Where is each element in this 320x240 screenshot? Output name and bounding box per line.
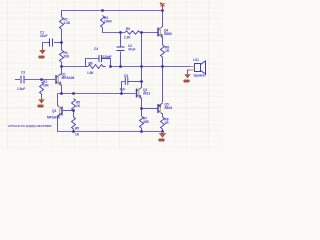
junction dots: [40, 9, 164, 133]
svg-text:20K: 20K: [64, 55, 71, 59]
node output C2: [119, 65, 122, 68]
resistor R6: [88, 65, 106, 69]
node Q3 base divider: [72, 109, 75, 112]
wire feedback loop left bar: [86, 59, 100, 67]
wire R10 bottom to output rail: [162, 57, 164, 67]
svg-text:220pF: 220pF: [102, 55, 111, 59]
resistor R1: [40, 82, 44, 94]
svg-text:47uF: 47uF: [128, 48, 135, 52]
power port GND (bottom rail): [159, 132, 166, 143]
wire R5a bottom / R5b top: [73, 110, 75, 117]
svg-text:Speaker: Speaker: [194, 74, 207, 78]
svg-text:22uF: 22uF: [40, 34, 47, 38]
capacitor C2 bootstrap: [117, 47, 125, 51]
wire R5b bottom to rail: [73, 129, 75, 132]
wire R9 right to Q4 base: [140, 32, 157, 34]
wire Q1 emitter down: [61, 85, 63, 94]
power port GND (C1): [39, 48, 46, 59]
transistor Q3: [58, 106, 63, 117]
svg-text:R9: R9: [126, 27, 130, 31]
capacitor C4 feedback: [99, 55, 111, 62]
wire Q2 collector up: [141, 82, 143, 88]
resistor R10: [161, 45, 165, 57]
power port GND (R1): [38, 98, 45, 109]
wire Q3 base to R5 node: [63, 110, 74, 112]
resistor R4: [60, 50, 64, 62]
wire R1 bottom to ground: [41, 94, 43, 98]
wire Q5 emitter to R8: [162, 114, 164, 118]
svg-text:GND: GND: [39, 56, 45, 59]
svg-text:R6: R6: [89, 62, 93, 66]
wire Q3 emitter down: [57, 117, 59, 132]
svg-text:1R: 1R: [165, 49, 170, 53]
wire Q5 collector up to rail: [162, 67, 164, 103]
node feedback loop right: [109, 65, 112, 68]
resistor R9: [125, 31, 140, 34]
svg-text:MPSA06: MPSA06: [62, 76, 75, 80]
node R5a top: [72, 92, 75, 95]
speaker LS1: [191, 61, 206, 74]
svg-text:4.3K: 4.3K: [64, 21, 71, 25]
svg-text:ATTACH TO Q4(Q5) HEATSINK: ATTACH TO Q4(Q5) HEATSINK: [8, 124, 52, 128]
capacitor C5: [125, 77, 128, 85]
wire R2 column top: [61, 11, 63, 18]
transistor Q2: [137, 88, 142, 99]
capacitor C3 input: [21, 76, 24, 84]
node output bias: [140, 65, 143, 68]
wire top rail: [61, 10, 163, 12]
wire Q5 base: [142, 108, 157, 110]
node C1/R2/R4: [60, 41, 63, 44]
resistor R8: [161, 117, 165, 129]
wire C3 to Q1 base: [24, 79, 55, 81]
wire node X down to C2: [120, 33, 122, 48]
svg-text:D880: D880: [164, 32, 172, 36]
svg-text:B834: B834: [165, 106, 173, 110]
svg-text:10K: 10K: [43, 84, 50, 88]
wire R8 bottom to rail: [162, 129, 164, 132]
svg-text:GND: GND: [38, 105, 44, 108]
wire R2 to C1 node: [61, 29, 63, 50]
wire R4 bottom to node A: [61, 62, 63, 74]
svg-text:GND: GND: [159, 139, 165, 142]
wire C1 left lead to ground: [43, 43, 48, 49]
resistor R3: [101, 16, 105, 28]
node A feedback: [60, 65, 63, 68]
wire Q4 emitter to R10: [162, 38, 164, 46]
svg-text:1K: 1K: [75, 133, 80, 137]
node rail R5b: [72, 130, 75, 133]
svg-text:C4: C4: [94, 47, 98, 51]
svg-text:C3: C3: [21, 71, 25, 75]
svg-text:R5: R5: [75, 127, 79, 131]
wire C5 left lead down: [122, 82, 126, 94]
svg-text:43R: 43R: [143, 120, 150, 124]
node C5 right: [140, 80, 143, 83]
svg-text:C5: C5: [124, 74, 128, 78]
wire output rail: [111, 66, 194, 68]
wire R3 bottom corner to node X: [103, 28, 126, 33]
wire bias column x141: [141, 33, 143, 82]
power port GND (speaker): [184, 73, 191, 83]
resistor R7: [140, 116, 144, 128]
wire input left segment: [15, 79, 20, 81]
node input base: [40, 78, 43, 81]
wire mid rail y93: [58, 93, 136, 95]
svg-text:1.5K: 1.5K: [87, 71, 94, 75]
svg-text:Q3: Q3: [52, 109, 56, 113]
wire R6 leads: [86, 66, 89, 68]
wire Q2 emitter down: [141, 98, 143, 116]
svg-text:9013: 9013: [143, 92, 150, 96]
power port +V: [161, 4, 166, 11]
wire Q3 collector up: [57, 94, 59, 106]
node R9 right: [140, 31, 143, 34]
resistor R2: [60, 17, 64, 29]
node Q1 emitter: [60, 92, 63, 95]
node Q5 base R7: [140, 107, 143, 110]
resistor R5b: [72, 117, 76, 129]
svg-text:GND: GND: [184, 80, 190, 83]
node output main: [161, 65, 164, 68]
node top rail Q4: [161, 9, 164, 12]
transistor Q4: [157, 27, 163, 38]
node top rail R3: [101, 9, 104, 12]
svg-text:1R: 1R: [165, 121, 170, 125]
wire Q4 collector to top rail: [162, 11, 164, 27]
resistor R5a: [72, 99, 76, 111]
svg-text:100R: 100R: [104, 20, 112, 24]
svg-text:MPSA56: MPSA56: [47, 115, 60, 119]
svg-text:LS1: LS1: [193, 58, 199, 62]
node rail R7: [140, 130, 143, 133]
node X bootstrap: [119, 31, 122, 34]
transistor Q1: [56, 74, 62, 86]
node rail gnd: [161, 130, 164, 133]
node C5 left: [120, 92, 123, 95]
capacitor C1: [48, 39, 53, 47]
wire speaker pin2 to gnd: [188, 70, 194, 73]
transistor Q5: [157, 103, 163, 114]
svg-text:2.2K: 2.2K: [124, 36, 131, 40]
wire feedback loop right bar: [110, 59, 112, 67]
wire C1 right lead: [54, 42, 62, 44]
svg-text:1.5uF: 1.5uF: [17, 87, 25, 91]
wire node A to feedback loop: [62, 66, 86, 68]
wire R7 bottom to rail: [141, 128, 143, 132]
svg-text:7uF: 7uF: [120, 87, 126, 91]
wire C2 bottom to output rail: [120, 52, 122, 67]
wire C5 right lead: [128, 81, 142, 83]
wire bottom rail: [58, 131, 163, 133]
svg-text:1K: 1K: [76, 104, 81, 108]
